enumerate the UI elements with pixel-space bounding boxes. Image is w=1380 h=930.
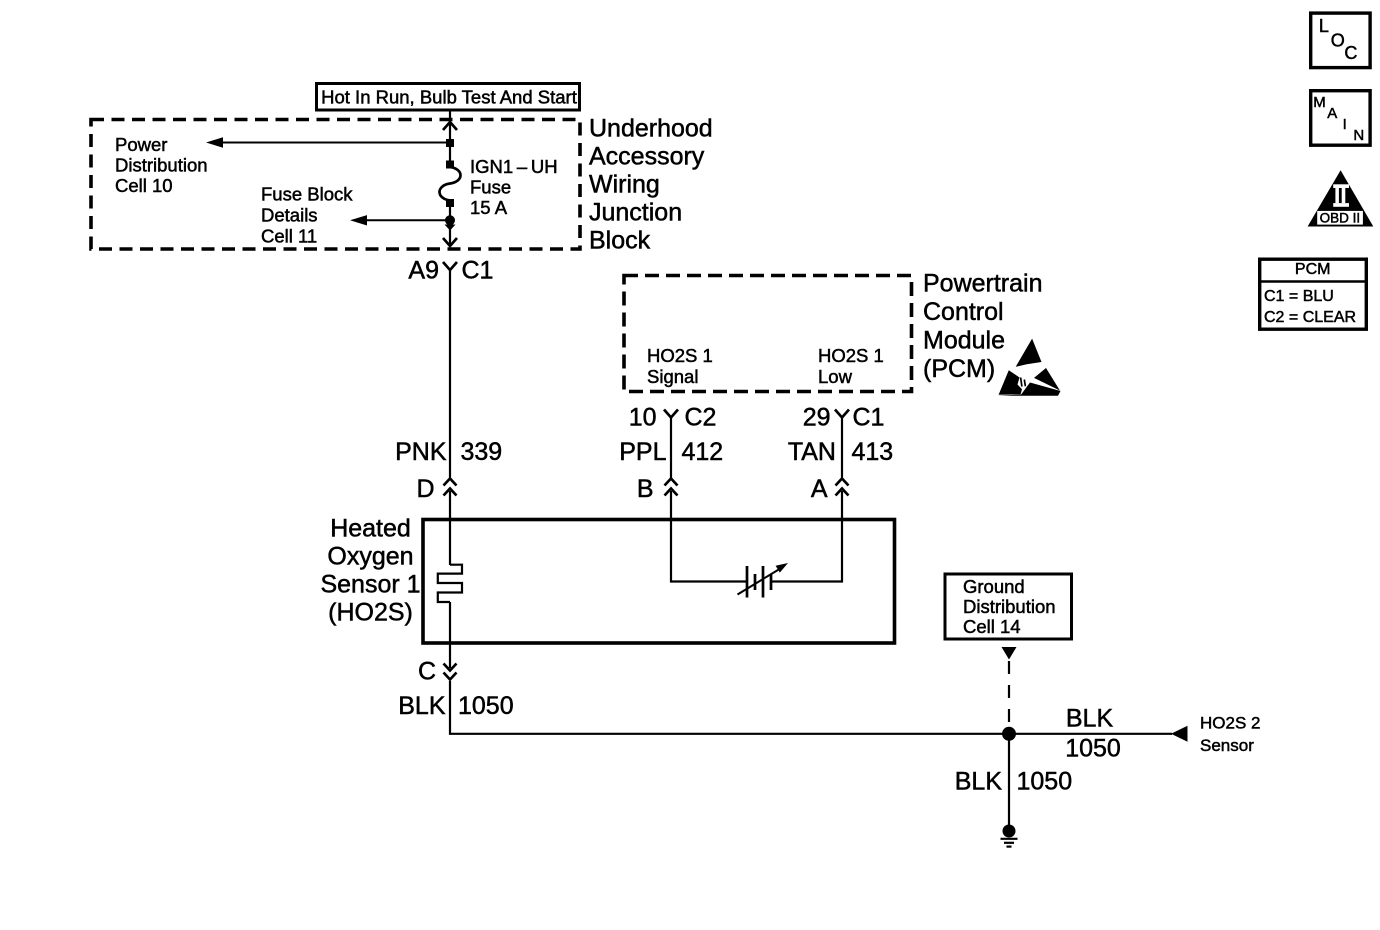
svg-text:Fuse Block: Fuse Block <box>261 184 353 205</box>
ESD sensitive device symbol <box>998 339 1061 396</box>
svg-text:Oxygen: Oxygen <box>327 543 413 571</box>
svg-text:C: C <box>1344 43 1357 63</box>
wire PNK 339 <box>449 270 451 478</box>
svg-text:Fuse: Fuse <box>470 177 511 198</box>
svg-text:Hot In Run, Bulb Test And Star: Hot In Run, Bulb Test And Start <box>321 86 577 107</box>
svg-text:BLK: BLK <box>398 692 446 720</box>
svg-text:Powertrain: Powertrain <box>923 270 1043 298</box>
svg-text:Wiring: Wiring <box>589 170 660 198</box>
svg-text:Block: Block <box>589 226 651 254</box>
svg-text:1050: 1050 <box>458 692 514 720</box>
arrow chevron (down) at block exit <box>443 238 457 246</box>
Ground Distribution Cell 14 box <box>945 574 1072 639</box>
svg-text:HO2S 2: HO2S 2 <box>1200 714 1260 733</box>
fuse IGN1-UH element (S-curve) <box>440 167 461 201</box>
junction dot on fuse output <box>445 215 455 225</box>
svg-text:Signal: Signal <box>647 366 698 387</box>
svg-text:BLK: BLK <box>1066 705 1114 733</box>
pin C connector chevrons <box>444 664 457 680</box>
pin A connector chevrons <box>836 479 849 496</box>
connector A9 C1 (Y symbol) <box>443 262 457 270</box>
Powertrain Control Module (dashed outline) <box>624 276 912 392</box>
ground symbol <box>1001 825 1018 847</box>
PCM connector pin 29 C1 (Y symbol) <box>835 410 849 418</box>
svg-text:PPL: PPL <box>619 438 666 466</box>
svg-text:Sensor: Sensor <box>1200 736 1254 755</box>
Heated Oxygen Sensor 1 box <box>423 520 895 644</box>
wire BLK 1050: splice to ground <box>1008 740 1010 826</box>
svg-text:A9: A9 <box>408 257 439 285</box>
pin function label: HO2S 1 Signal <box>647 345 713 387</box>
svg-text:(HO2S): (HO2S) <box>328 599 413 627</box>
svg-text:O: O <box>1331 31 1345 51</box>
LOC legend box <box>1311 13 1370 68</box>
svg-text:Junction: Junction <box>589 198 682 226</box>
off-page arrow to HO2S 2 Sensor <box>1171 726 1188 742</box>
junction square (power distribution tap) <box>446 139 454 147</box>
svg-text:Power: Power <box>115 134 167 155</box>
power feed box "Hot In Run, Bulb Test And Start" <box>317 84 580 111</box>
svg-text:Heated: Heated <box>330 515 411 543</box>
wire: pin D into HO2S heater <box>449 491 451 565</box>
MAIN legend box <box>1311 91 1370 146</box>
svg-text:Distribution: Distribution <box>963 596 1056 617</box>
wire: Hot In Run feed down to fuse (upper segment) <box>449 110 451 164</box>
svg-text:C: C <box>418 658 436 686</box>
svg-text:C1 = BLU: C1 = BLU <box>1264 288 1334 305</box>
wire: fuse output to block exit <box>449 205 451 245</box>
svg-text:PNK: PNK <box>395 438 447 466</box>
label: Powertrain Control Module (PCM) <box>923 270 1043 383</box>
svg-text:10: 10 <box>629 404 657 432</box>
PCM connector pin 10 C2 (Y symbol) <box>664 410 678 418</box>
heater element (meander) <box>438 565 462 602</box>
arrow to Fuse Block Details Cell 11 <box>350 215 450 225</box>
svg-text:TAN: TAN <box>788 438 836 466</box>
fuse IGN1-UH top terminal <box>446 161 454 169</box>
label: Underhood Accessory Wiring Junction Block <box>589 114 713 254</box>
OBD II symbol <box>1308 170 1374 226</box>
svg-text:(PCM): (PCM) <box>923 355 995 383</box>
svg-text:29: 29 <box>803 404 831 432</box>
splice junction dot <box>1002 727 1016 741</box>
svg-text:OBD II: OBD II <box>1320 211 1361 226</box>
svg-text:Details: Details <box>261 205 318 226</box>
svg-text:A: A <box>811 475 828 503</box>
svg-text:Accessory: Accessory <box>589 142 705 170</box>
dashed wire: ground distribution to splice <box>1008 661 1010 727</box>
wire TAN 413 <box>841 418 843 478</box>
pin function label: HO2S 1 Low <box>818 345 884 387</box>
svg-text:1050: 1050 <box>1065 735 1121 763</box>
svg-text:D: D <box>416 475 434 503</box>
wire PPL 412 <box>670 418 672 478</box>
svg-text:C1: C1 <box>853 404 885 432</box>
flow arrow below junction dot <box>445 225 456 231</box>
svg-text:Cell 14: Cell 14 <box>963 616 1021 637</box>
arrow to Power Distribution Cell 10 <box>206 137 450 147</box>
svg-text:Module: Module <box>923 326 1005 354</box>
Underhood Accessory Wiring Junction Block (dashed outline) <box>91 120 580 250</box>
wire: pin B to sensing cell <box>671 491 746 582</box>
svg-text:1050: 1050 <box>1017 768 1073 796</box>
svg-text:339: 339 <box>461 438 503 466</box>
wire: pin A to sensing cell <box>772 491 842 582</box>
svg-text:A: A <box>1327 105 1337 122</box>
svg-text:Sensor 1: Sensor 1 <box>320 571 420 599</box>
fuse IGN1-UH bottom terminal <box>446 199 454 207</box>
svg-text:I: I <box>1343 116 1347 133</box>
label: Heated Oxygen Sensor 1 (HO2S) <box>320 515 420 627</box>
svg-text:IGN1 – UH: IGN1 – UH <box>470 156 558 177</box>
svg-text:Cell 10: Cell 10 <box>115 175 173 196</box>
svg-text:L: L <box>1319 16 1329 36</box>
value label: IGN1-UH Fuse 15 A <box>470 156 558 218</box>
svg-text:Cell 11: Cell 11 <box>261 226 317 247</box>
svg-text:Control: Control <box>923 298 1004 326</box>
wire: heater to pin C <box>449 602 451 668</box>
svg-text:M: M <box>1313 94 1326 111</box>
sensing cell (variable voltage source) <box>747 566 771 598</box>
triangle connector below ground distribution box <box>1002 647 1017 660</box>
svg-text:Distribution: Distribution <box>115 155 208 176</box>
svg-text:HO2S 1: HO2S 1 <box>818 345 884 366</box>
label: Power Distribution Cell 10 <box>115 134 208 196</box>
svg-text:C1: C1 <box>462 257 494 285</box>
wire BLK 1050: pin C down and right to splice <box>450 681 1172 734</box>
svg-text:HO2S 1: HO2S 1 <box>647 345 713 366</box>
svg-text:413: 413 <box>852 438 894 466</box>
label: Fuse Block Details Cell 11 <box>261 184 353 247</box>
pin B connector chevrons <box>665 479 678 496</box>
variability arrow across sensing cell <box>738 563 789 595</box>
svg-text:B: B <box>637 475 654 503</box>
svg-text:C2 = CLEAR: C2 = CLEAR <box>1264 309 1356 326</box>
svg-text:PCM: PCM <box>1295 261 1331 278</box>
svg-text:Ground: Ground <box>963 576 1025 597</box>
label: HO2S 2 Sensor <box>1200 714 1260 756</box>
svg-text:BLK: BLK <box>955 768 1003 796</box>
pin D connector chevrons <box>444 479 457 496</box>
svg-text:412: 412 <box>682 438 724 466</box>
PCM connector legend table <box>1259 259 1367 329</box>
arrow chevron (up) at block entry <box>443 122 457 130</box>
svg-text:C2: C2 <box>685 404 717 432</box>
svg-text:15 A: 15 A <box>470 197 508 218</box>
svg-text:N: N <box>1353 127 1364 144</box>
svg-text:Underhood: Underhood <box>589 114 713 142</box>
svg-text:Low: Low <box>818 366 853 387</box>
